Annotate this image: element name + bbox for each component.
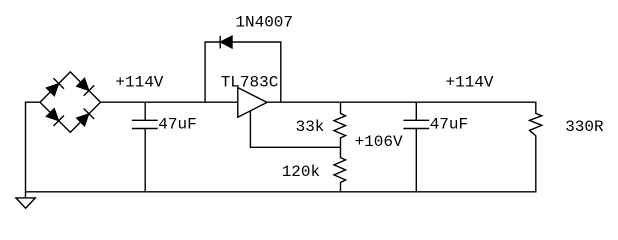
capacitor C1 value 47uF: [158, 116, 196, 134]
resistor R3 330R (zigzag with leads): [530, 102, 542, 192]
node +106V label (ADJ tap): [355, 133, 403, 151]
capacitor C2 bottom lead: [415, 129, 417, 192]
wire: 1N4007 bypass loop (up, across, down): [205, 42, 281, 102]
diode 1N4007 label: [235, 13, 293, 31]
wire: left vertical drop to ground rail: [25, 102, 27, 192]
svg-text:TL783C: TL783C: [221, 73, 279, 91]
regulator U1 TL783C triangle body: [238, 88, 267, 118]
bridge diode D2 (top-right edge, pointing to right vertex): [76, 78, 94, 96]
regulator U1 TL783C label: [221, 73, 279, 91]
svg-text:47uF: 47uF: [158, 116, 196, 134]
ground: [16, 192, 35, 208]
capacitor C2 value 47uF: [430, 116, 468, 134]
wire: bottom ground rail: [25, 191, 537, 193]
svg-text:47uF: 47uF: [430, 116, 468, 134]
resistor R2 120k (zigzag with leads): [334, 147, 346, 192]
capacitor C1 bottom lead: [144, 129, 146, 192]
diode 1N4007 (cathode left, on bypass loop): [220, 36, 232, 49]
node +114V label (output side): [446, 74, 494, 92]
capacitor C2 plates: [403, 120, 429, 128]
svg-text:+106V: +106V: [355, 133, 403, 151]
capacitor C2 47uF: top lead: [415, 102, 417, 120]
bridge rectifier diamond outline: [40, 72, 101, 132]
svg-text:+114V: +114V: [115, 74, 163, 92]
svg-text:1N4007: 1N4007: [235, 13, 293, 31]
bridge diode D4 (bottom-right edge, pointing to right vertex): [76, 109, 94, 127]
node +114V label (input side): [115, 74, 163, 92]
resistor R2 value 120k: [282, 163, 320, 181]
resistor R3 value 330R: [565, 118, 604, 136]
capacitor C1 plates: [132, 120, 158, 128]
svg-text:120k: 120k: [282, 163, 320, 181]
bridge diode D1 (top-left edge, pointing to top vertex): [46, 78, 64, 96]
svg-text:330R: 330R: [565, 118, 604, 136]
wire: +114V rail, bridge output to regulator input: [101, 101, 238, 103]
bridge diode D3 (bottom-left edge, pointing to bottom vertex): [46, 108, 64, 126]
svg-text:33k: 33k: [296, 118, 325, 136]
wire: regulator output rail to right corner: [267, 101, 537, 103]
resistor R1 value 33k: [296, 118, 325, 136]
wire: AC input from left drop to bridge left vertex: [25, 101, 40, 103]
wire: regulator ADJ pin down and right to divider tap: [250, 111, 340, 147]
resistor R1 33k (zigzag with leads): [334, 102, 346, 147]
svg-text:+114V: +114V: [446, 74, 494, 92]
capacitor C1 47uF: top lead: [144, 102, 146, 120]
